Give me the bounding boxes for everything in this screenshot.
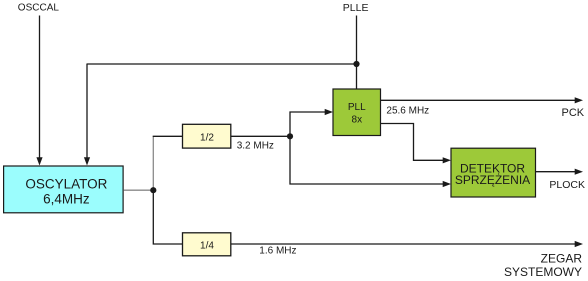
svg-text:PLLE: PLLE: [343, 2, 369, 14]
arrowhead PCK: [575, 97, 583, 103]
wire PLL to detektor (upper): [381, 124, 445, 161]
wire riser down to divider 1/4: [153, 190, 182, 244]
wire feedback horizontal: [87, 63, 357, 65]
svg-text:ZEGAR: ZEGAR: [541, 251, 583, 265]
wire oscillator output (gray): [124, 189, 154, 191]
svg-text:PLL: PLL: [348, 102, 366, 113]
wire junction up to PLL: [290, 112, 326, 136]
wire riser up to divider 1/2 (gray): [152, 136, 154, 190]
wire ZEGAR SYSTEMOWY output: [231, 243, 576, 245]
svg-text:6,4MHz: 6,4MHz: [43, 191, 90, 206]
wire feedback vertical: [86, 64, 88, 159]
wire PLLE input vertical: [356, 16, 358, 90]
arrowhead into PLL: [325, 109, 333, 115]
divider 1/4: [183, 233, 231, 256]
wire into divider 1/2: [153, 135, 183, 137]
svg-text:3.2 MHz: 3.2 MHz: [237, 141, 274, 152]
wire junction down to detektor: [290, 136, 444, 184]
arrowhead feedback into oscillator: [84, 157, 90, 165]
wire PCK output: [381, 99, 577, 101]
svg-text:SPRZĘŻENIA: SPRZĘŻENIA: [455, 173, 530, 187]
svg-text:8x: 8x: [352, 114, 363, 125]
svg-text:PCK: PCK: [562, 107, 585, 119]
node junction PLLE-feedback: [353, 61, 359, 67]
arrowhead OSCCAL into oscillator: [36, 157, 42, 165]
wire 1/2 output to junction: [231, 135, 290, 137]
svg-text:1.6 MHz: 1.6 MHz: [259, 246, 296, 257]
node junction oscillator output: [150, 187, 156, 193]
arrowhead ZEGAR: [575, 241, 583, 247]
svg-text:1/4: 1/4: [200, 240, 214, 251]
svg-text:OSCCAL: OSCCAL: [18, 3, 60, 14]
node junction 3.2MHz: [287, 133, 293, 139]
svg-text:OSCYLATOR: OSCYLATOR: [25, 177, 107, 192]
arrowhead into detektor (lower): [443, 181, 451, 187]
svg-text:25.6 MHz: 25.6 MHz: [386, 106, 429, 117]
wire OSCCAL input vertical: [39, 16, 41, 159]
block OSCYLATOR 6,4MHz: [4, 166, 124, 213]
block DETEKTOR SPRZEZENIA: [451, 148, 536, 197]
arrowhead PLOCK: [575, 169, 583, 175]
wire PLOCK output: [536, 171, 577, 173]
divider 1/2: [183, 124, 231, 148]
svg-text:SYSTEMOWY: SYSTEMOWY: [504, 265, 582, 279]
svg-text:PLOCK: PLOCK: [549, 179, 585, 191]
svg-text:1/2: 1/2: [200, 133, 214, 144]
block PLL 8x: [333, 89, 381, 136]
arrowhead into detektor (upper): [443, 157, 451, 163]
